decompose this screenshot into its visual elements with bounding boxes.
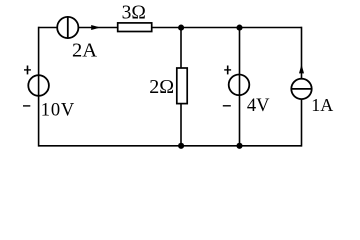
plus sign 10V (24, 69, 31, 71)
node bottom-right junction (236, 143, 242, 149)
node bottom-left junction (178, 143, 184, 149)
wire: 2-ohm middle branch (180, 28, 182, 146)
voltage source 10V (28, 75, 49, 96)
minus sign 10V (23, 105, 30, 107)
wire: left branch (38, 27, 40, 147)
node top-right junction (236, 25, 242, 31)
arrowhead 1A up (299, 64, 304, 73)
arrowhead on top wire (91, 25, 100, 30)
current source 1A (291, 79, 311, 99)
wire: bottom rail (39, 145, 302, 147)
svg-text:2A: 2A (72, 39, 97, 61)
resistor 2ohm (177, 68, 187, 104)
wire: 4V middle branch (239, 28, 241, 146)
wire: right branch (301, 27, 303, 147)
node top-left junction (178, 25, 184, 31)
svg-text:10V: 10V (41, 101, 75, 121)
resistor 3ohm (118, 23, 152, 32)
current source 2A (57, 17, 78, 38)
voltage source 4V (229, 75, 250, 96)
svg-text:3Ω: 3Ω (122, 3, 146, 24)
svg-text:1A: 1A (311, 95, 333, 115)
svg-text:4V: 4V (247, 96, 270, 116)
minus sign 4V (223, 105, 231, 107)
plus sign 4V (224, 69, 231, 71)
svg-text:2Ω: 2Ω (149, 76, 174, 98)
wire: top rail (39, 27, 302, 29)
